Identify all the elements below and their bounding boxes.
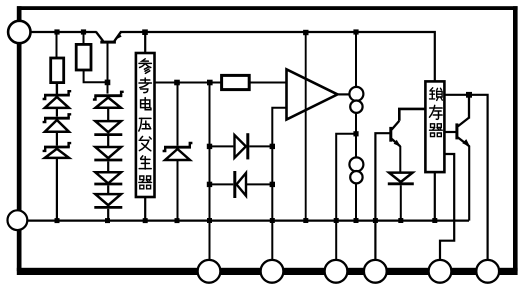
diode D8 xyxy=(235,133,273,159)
wire node between CS1 CS2 to pin3 column xyxy=(336,134,356,271)
node dot top rail x306 xyxy=(303,30,308,35)
node dot x336 rail xyxy=(334,218,339,223)
node dot x469 y94.8 xyxy=(466,92,472,98)
zener D1 chain1 xyxy=(43,91,72,116)
node dot x306 rail end xyxy=(303,218,308,223)
wire pin4 column to Q2 base xyxy=(375,133,390,271)
node dot top rail x145 xyxy=(142,29,148,35)
resistor R2 xyxy=(76,44,91,70)
wire R2 top xyxy=(83,32,85,44)
wire column x210 to pin xyxy=(209,83,211,272)
wire D8 anode xyxy=(210,145,233,147)
pin 7 bottom xyxy=(429,260,452,283)
zener Z4 xyxy=(163,143,193,221)
zener D2 chain1 xyxy=(43,114,72,145)
wire ref box bottom xyxy=(144,197,146,221)
wire top rail right segment with corner down to latch xyxy=(120,32,435,82)
node dot top rail x57 xyxy=(54,29,59,34)
wire comparator inverting input xyxy=(272,108,287,271)
zener D3 chain1 xyxy=(43,143,72,221)
wire comparator output xyxy=(338,93,352,95)
pin 3 bottom xyxy=(198,260,221,283)
op-amp U2 comparator xyxy=(287,69,338,119)
diode D5 chain2 xyxy=(94,121,122,146)
node dot mid rail x210 xyxy=(207,80,213,86)
node dot x272 y184.4 xyxy=(270,182,275,187)
transistor Q1 xyxy=(96,32,122,94)
node dot x375 rail xyxy=(373,218,378,223)
node dot x400 rail xyxy=(398,218,403,223)
node dot x272 rail xyxy=(270,218,275,223)
pin 8 bottom xyxy=(476,260,499,283)
pin 4 bottom xyxy=(261,260,284,283)
node dot rail x145.2 xyxy=(143,218,148,223)
wire latch right to pin5 jog xyxy=(440,154,454,271)
diode D7b chain2 xyxy=(94,194,122,221)
node dot x272 y146.4 xyxy=(270,144,275,149)
current source CS1 xyxy=(349,87,363,113)
node dot rail x177 xyxy=(175,218,180,223)
wire R1 top xyxy=(56,32,58,58)
node dot x356 rail xyxy=(354,218,359,223)
wire current source column xyxy=(355,32,357,221)
node dot x356 y133.8 xyxy=(353,131,358,136)
diode D7 chain2 xyxy=(94,172,122,193)
wire crossing vertical x306 xyxy=(305,32,307,221)
wire zener Z4 top xyxy=(177,83,179,146)
node dot x434.8 rail xyxy=(432,218,437,223)
node dot x210 y146.4 xyxy=(207,144,212,149)
current source CS2 xyxy=(349,157,363,183)
pin 1 top-left xyxy=(8,21,30,43)
diode D6 chain2 xyxy=(94,147,122,171)
node dot x107.5 y81.8 xyxy=(105,80,111,86)
wire top rail left segment xyxy=(31,31,97,33)
node dot top rail x355 xyxy=(353,29,358,34)
node dot x210 y184.4 xyxy=(207,182,212,187)
wire ref box top xyxy=(144,32,146,53)
zener D4 chain2 top xyxy=(93,92,124,120)
wire mid rail xyxy=(155,81,223,83)
node dot top rail x83.5 xyxy=(81,29,86,34)
wire latch right top to pin6 xyxy=(444,95,487,271)
node dot rail x107.5 xyxy=(105,218,110,223)
block U1 reference voltage generator 参考电压发生器 xyxy=(136,53,155,197)
node dot x210 rail xyxy=(207,218,212,223)
diode D9 xyxy=(210,171,272,198)
node dot rail x57 xyxy=(55,218,60,223)
pin 6 bottom xyxy=(364,260,387,283)
wire R3 to comparator xyxy=(249,81,287,83)
wire R1 bottom xyxy=(56,83,58,95)
node dot mid rail x177 xyxy=(174,80,180,86)
wire latch bottom xyxy=(434,172,436,221)
wire bottom internal rail xyxy=(27,220,469,222)
transistor Q3 xyxy=(455,95,470,221)
resistor R1 xyxy=(51,58,64,83)
block U3 latch 锁存器 xyxy=(425,81,444,172)
zener Z5 xyxy=(388,173,414,221)
wire R2 bottom to Q1 collector xyxy=(84,70,108,82)
pin 2 left xyxy=(8,210,28,230)
resistor R3 xyxy=(222,75,250,89)
pin 5 bottom xyxy=(325,260,348,283)
transistor Q2 xyxy=(389,109,426,172)
wire latch to Q3 base xyxy=(444,131,455,133)
